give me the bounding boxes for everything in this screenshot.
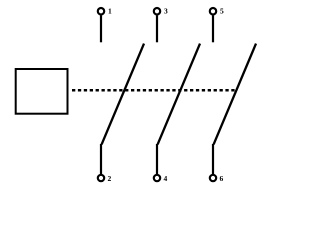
wire: top stem pole 3 (212, 15, 214, 42)
wire: bottom stem pole 1 (100, 144, 102, 174)
svg-text:1: 1 (108, 7, 112, 16)
switch blade pole 3 (214, 44, 256, 145)
svg-text:3: 3 (164, 7, 168, 16)
switch blade pole 1 (102, 44, 144, 145)
pole 3: terminal 5 circle (210, 8, 216, 14)
pole 1: terminal 1 circle (98, 8, 104, 14)
switch blade pole 2 (158, 44, 200, 145)
coil box K1 (16, 69, 68, 114)
wire: top stem pole 2 (156, 15, 158, 42)
svg-text:6: 6 (220, 174, 224, 183)
pole 2: terminal 3 circle (154, 8, 160, 14)
svg-text:2: 2 (108, 174, 112, 183)
mechanical linkage dashed line (72, 89, 235, 92)
svg-text:4: 4 (164, 174, 168, 183)
wire: top stem pole 1 (100, 15, 102, 42)
terminal 4 circle (154, 175, 160, 181)
svg-text:5: 5 (220, 7, 224, 16)
wire: bottom stem pole 2 (156, 144, 158, 174)
wire: bottom stem pole 3 (212, 144, 214, 174)
terminal 2 circle (98, 175, 104, 181)
terminal 6 circle (210, 175, 216, 181)
